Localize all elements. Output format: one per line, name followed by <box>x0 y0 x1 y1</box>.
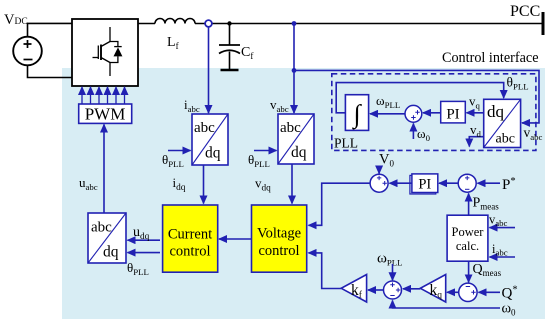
wire current tap down <box>208 27 210 113</box>
svg-text:dq: dq <box>205 145 221 162</box>
current control block <box>163 205 218 272</box>
summing junction freq <box>384 281 402 299</box>
summing junction Q <box>459 283 477 301</box>
svg-text:Power: Power <box>452 225 485 239</box>
gate drive arrows <box>82 87 125 104</box>
svg-text:dq: dq <box>103 244 119 261</box>
wire P* <box>478 182 501 184</box>
node capacitor junction <box>227 21 231 25</box>
wire omega0 into PLL sum <box>412 124 414 140</box>
bus wire to PCC <box>195 23 542 25</box>
power calc block <box>447 215 488 261</box>
wire theta PLL into dq-abc block <box>128 252 161 254</box>
wire theta PLL into voltage block <box>254 150 277 152</box>
svg-text:PI: PI <box>446 107 459 123</box>
wire omega PLL <box>370 113 405 115</box>
svg-text:control: control <box>258 243 299 259</box>
wire V0 into sum <box>378 166 380 174</box>
control interface background panel <box>62 68 545 319</box>
wire VDC bottom <box>28 65 73 78</box>
svg-text:PCC: PCC <box>510 3 540 20</box>
wire idq <box>203 165 205 204</box>
wire vabc to PLL <box>294 70 539 123</box>
PI block power <box>410 174 438 194</box>
wire udq <box>128 239 161 241</box>
wire kq to freq sum <box>403 288 420 290</box>
wire inverter to inductor <box>138 23 155 25</box>
node voltage tap <box>292 21 297 26</box>
dq/abc block PLL <box>484 99 521 147</box>
voltage control block <box>252 205 307 272</box>
gain kq <box>420 275 445 303</box>
voltage source VDC <box>13 37 42 66</box>
wire Pmeas <box>468 194 470 216</box>
integrator block <box>345 95 368 131</box>
wire VDC top <box>28 23 73 37</box>
PI block PLL <box>441 101 466 123</box>
svg-text:dq: dq <box>487 102 505 121</box>
wire voltage control to current control <box>219 238 252 240</box>
IGBT symbol <box>93 27 122 76</box>
svg-text:control: control <box>169 243 210 259</box>
PLL dashed box <box>332 74 536 151</box>
node vabc branch <box>292 68 297 73</box>
capacitor Cf <box>219 24 240 71</box>
svg-text:Control interface: Control interface <box>442 50 539 66</box>
inverter block <box>72 19 138 86</box>
dq to abc block <box>88 213 126 263</box>
wire voltage tap down <box>293 24 295 114</box>
summing junction P <box>458 174 476 192</box>
wire theta PLL feedback <box>336 83 504 113</box>
node current tap <box>205 20 212 27</box>
PCC terminal bar <box>542 12 545 35</box>
summing junction PLL <box>405 105 422 122</box>
svg-text:abc: abc <box>280 120 301 136</box>
svg-text:PI: PI <box>418 177 431 193</box>
svg-text:Lf: Lf <box>167 35 179 51</box>
svg-text:abc: abc <box>194 120 215 136</box>
svg-text:Cf: Cf <box>241 45 253 61</box>
wire P sum to PI <box>439 182 458 184</box>
wire vd <box>469 137 483 147</box>
IGBT diode <box>114 47 123 56</box>
wire vabc into power calc <box>490 227 516 229</box>
wire vdq <box>291 164 293 204</box>
wire Q sum to kq <box>447 291 459 293</box>
wire PI to PLL sum <box>423 112 441 114</box>
svg-text:Voltage: Voltage <box>257 226 301 242</box>
svg-text:abc: abc <box>91 220 112 236</box>
PWM block <box>79 104 132 124</box>
svg-text:PWM: PWM <box>85 105 126 124</box>
svg-text:VDC: VDC <box>4 12 28 28</box>
wire omega PLL into freq sum <box>392 264 394 280</box>
svg-text:abc: abc <box>496 132 515 147</box>
svg-text:PLL: PLL <box>334 136 358 151</box>
svg-text:Current: Current <box>168 227 212 243</box>
wire kf to voltage control <box>309 253 342 289</box>
wire iabc into power calc <box>490 256 516 258</box>
wire uabc <box>103 125 105 214</box>
wire omega0 into freq sum <box>393 301 501 309</box>
summing junction V0 <box>370 174 388 192</box>
svg-text:dq: dq <box>291 144 307 161</box>
inductor Lf <box>155 19 195 24</box>
gain kf <box>341 275 366 303</box>
abc/dq block voltage <box>278 114 314 164</box>
wire vq <box>467 112 484 114</box>
svg-text:calc.: calc. <box>456 239 479 253</box>
wire Q* <box>479 291 501 293</box>
abc/dq block current <box>192 114 228 165</box>
wire freq sum to kf <box>368 289 384 291</box>
wire PI to V0 sum <box>390 182 412 184</box>
wire Qmeas <box>468 261 470 282</box>
wire theta PLL into current block <box>168 150 191 152</box>
wire sum V0 to voltage control <box>309 183 371 225</box>
